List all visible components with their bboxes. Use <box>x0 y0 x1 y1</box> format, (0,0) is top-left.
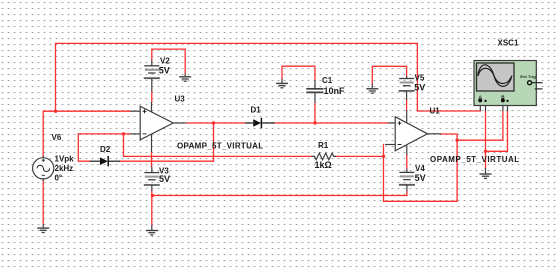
wire C1 top to ground GND1 <box>282 66 315 80</box>
battery V4 <box>399 169 415 192</box>
svg-text:OPAMP_5T_VIRTUAL: OPAMP_5T_VIRTUAL <box>177 142 263 151</box>
svg-text:5V: 5V <box>159 174 170 184</box>
junction U3 inverting input node <box>122 132 125 135</box>
ground GND3 (V5) <box>366 84 378 94</box>
op-amp U1 <box>385 110 441 155</box>
source V6 <box>33 156 54 181</box>
svg-text:D1: D1 <box>251 106 262 115</box>
wire V2 bottom to U3 V+ <box>151 92 153 103</box>
wire D1 cathode to U1 +in <box>275 122 388 124</box>
wire D2 cathode to U3 output <box>120 123 214 161</box>
svg-text:C1: C1 <box>322 76 333 85</box>
wire U3 -in horizontal <box>78 133 130 135</box>
svg-text:D2: D2 <box>100 145 111 154</box>
junction scope A- / B- ground node <box>484 150 487 153</box>
battery V2 <box>144 60 160 91</box>
junction R1 / U1 inverting input <box>382 155 385 158</box>
wire top rail from node A to scope A+ <box>56 43 481 111</box>
svg-text:U1: U1 <box>430 107 441 116</box>
resistor R1 <box>312 153 337 160</box>
wire V5 top to ground GND3 <box>372 66 406 83</box>
op-amp U3 <box>130 102 186 152</box>
wire U1 V- to V4 <box>406 155 408 169</box>
svg-text:2kHz: 2kHz <box>55 164 74 173</box>
wire V6 bottom to ground <box>42 181 44 224</box>
diode D1 <box>245 118 275 128</box>
wire negative rail <box>152 195 407 197</box>
wire V3 bottom to rail and ground <box>151 191 153 225</box>
B terminals <box>501 98 505 102</box>
wire V6 top to U3 +in and top rail riser <box>43 111 130 156</box>
junction V6/U3+ node <box>54 110 57 113</box>
ground GND4 (scope) <box>480 168 492 178</box>
junction V3 / ground / rail <box>151 194 154 197</box>
wire V2 top to ground GND2 <box>152 49 185 73</box>
svg-text:OPAMP_5T_VIRTUAL: OPAMP_5T_VIRTUAL <box>430 155 520 164</box>
wire U1 feedback loop <box>384 134 458 201</box>
svg-text:10nF: 10nF <box>324 86 346 96</box>
wire -in down to D2 anode <box>78 134 90 161</box>
svg-text:R1: R1 <box>318 141 329 150</box>
ground GND6 (V3) <box>146 225 158 235</box>
svg-text:Ext Trig: Ext Trig <box>520 74 536 79</box>
battery V3 <box>144 167 160 192</box>
svg-text:1kΩ: 1kΩ <box>315 160 332 170</box>
wire R1 right to U1 -in node <box>336 155 384 157</box>
svg-text:5V: 5V <box>159 66 170 76</box>
wire node to scope B+ <box>457 111 503 140</box>
wire U3 output to D1 <box>186 122 245 124</box>
svg-text:V5: V5 <box>415 74 425 83</box>
A terminals <box>478 98 482 102</box>
svg-text:V6: V6 <box>52 133 62 142</box>
svg-text:V2: V2 <box>160 57 170 66</box>
wire scope B- to A- node <box>486 111 508 151</box>
svg-text:XSC1: XSC1 <box>498 39 519 48</box>
ground GND2 (V2) <box>179 74 191 82</box>
ground GND5 (V6) <box>37 224 49 232</box>
junction U1 output / scope B <box>455 139 458 142</box>
oscilloscope XSC1 <box>474 61 543 112</box>
ground GND1 (C1) <box>276 79 288 88</box>
svg-text:5V: 5V <box>414 83 425 93</box>
wire U3 V- to V3 <box>151 152 153 167</box>
capacitor C1 <box>306 80 323 103</box>
battery V5 <box>399 76 415 100</box>
svg-text:5V: 5V <box>415 173 426 183</box>
wire -in node down to R1 left <box>124 134 312 157</box>
junction D1 cathode / C1 <box>313 121 316 124</box>
svg-text:U3: U3 <box>175 95 186 104</box>
Ext Trig terminal <box>528 81 532 85</box>
wire V4 bottom to rail <box>406 191 408 195</box>
wire C1 bottom to signal <box>314 103 316 123</box>
diode D2 <box>90 156 120 166</box>
svg-text:V4: V4 <box>415 164 425 173</box>
svg-text:0°: 0° <box>55 174 63 183</box>
svg-text:1Vpk: 1Vpk <box>55 155 75 164</box>
junction U3 output / D2 cathode <box>212 121 215 124</box>
wire scope A- to ground <box>485 111 487 168</box>
wire V5 bottom to U1 V+ <box>406 100 408 110</box>
